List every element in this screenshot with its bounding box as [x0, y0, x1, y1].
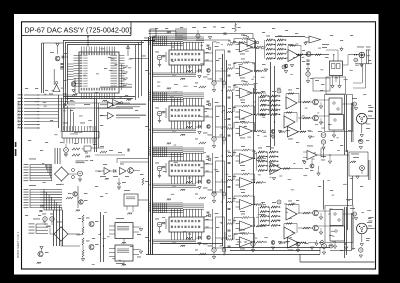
svg-text:DP-67 DAC ASS'Y (725-0042-00): DP-67 DAC ASS'Y (725-0042-00) [25, 25, 132, 34]
svg-text:W2504 SHEET 1 OF 1: W2504 SHEET 1 OF 1 [16, 231, 20, 258]
svg-text:ALL RESISTORS 1/4W: ALL RESISTORS 1/4W [17, 100, 21, 128]
